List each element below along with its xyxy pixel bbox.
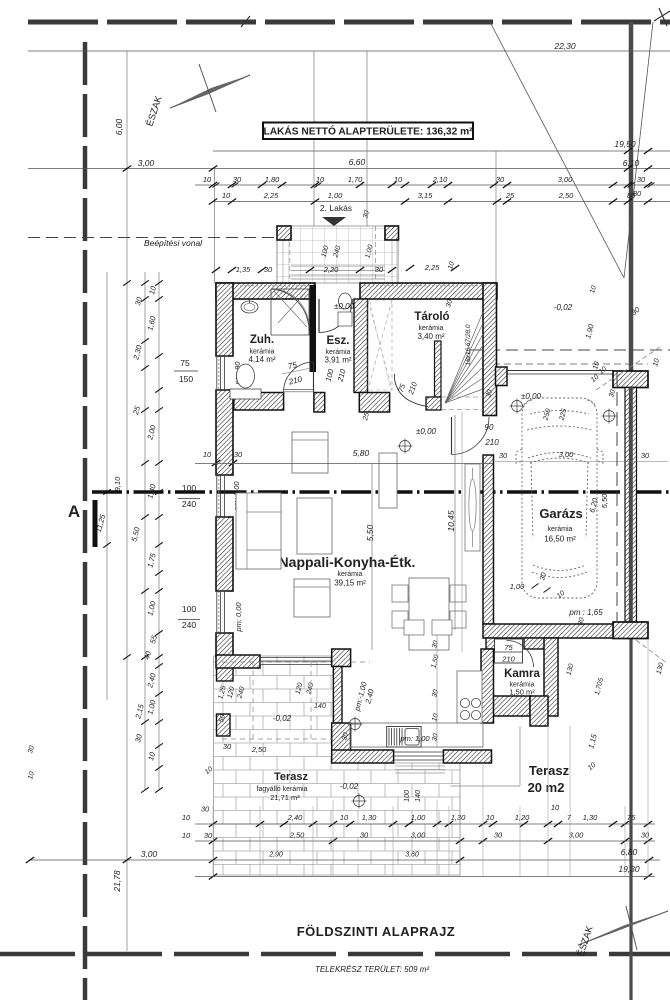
svg-text:10: 10 [222,191,231,200]
svg-text:75: 75 [504,643,513,652]
svg-text:100: 100 [182,604,196,614]
svg-text:30: 30 [223,742,232,751]
svg-text:21,71 m²: 21,71 m² [270,793,300,802]
svg-text:10: 10 [203,450,212,459]
svg-text:±0,00: ±0,00 [334,302,355,311]
svg-text:pm: 0,00: pm: 0,00 [234,602,243,633]
svg-text:210: 210 [287,374,304,386]
svg-text:30: 30 [362,210,371,219]
svg-text:240: 240 [182,620,196,630]
svg-text:75: 75 [287,360,298,371]
svg-text:30: 30 [375,265,384,274]
svg-text:2,20: 2,20 [323,265,339,274]
svg-text:30: 30 [27,745,36,754]
svg-text:1,00: 1,00 [510,582,525,591]
svg-text:±0,00: ±0,00 [416,427,437,436]
svg-text:-0,02: -0,02 [273,714,292,723]
svg-text:39,15 m²: 39,15 m² [334,579,366,588]
svg-text:1,40: 1,40 [145,482,158,499]
svg-text:10: 10 [589,285,598,294]
svg-text:30: 30 [445,299,454,308]
svg-text:6,20: 6,20 [587,496,600,513]
svg-text:Garázs: Garázs [539,506,582,521]
svg-text:10,45: 10,45 [446,510,456,532]
svg-text:80: 80 [633,189,642,198]
svg-text:3,00: 3,00 [559,450,574,459]
svg-text:240: 240 [182,499,196,509]
svg-text:90: 90 [485,423,494,432]
svg-text:1,35: 1,35 [236,265,251,274]
svg-text:5,50: 5,50 [365,524,375,541]
svg-text:3,40 m²: 3,40 m² [417,332,444,341]
svg-text:-0,02: -0,02 [554,303,573,312]
svg-text:-0,02: -0,02 [340,782,359,791]
svg-text:21,78: 21,78 [112,870,122,893]
svg-text:140: 140 [314,703,326,710]
svg-text:30: 30 [431,689,440,698]
svg-text:2,90: 2,90 [268,852,283,859]
svg-text:FÖLDSZINTI ALAPRAJZ: FÖLDSZINTI ALAPRAJZ [297,924,456,939]
svg-text:3,15: 3,15 [418,191,433,200]
svg-text:1,30: 1,30 [583,813,598,822]
svg-text:100: 100 [324,367,336,382]
svg-text:130: 130 [656,662,666,675]
svg-text:kerámia: kerámia [548,526,573,533]
svg-text:10: 10 [551,803,560,812]
svg-text:75: 75 [180,358,190,368]
svg-text:30: 30 [264,265,273,274]
svg-text:30: 30 [234,450,243,459]
svg-text:30: 30 [133,732,144,743]
svg-text:10: 10 [340,813,349,822]
svg-text:1,30: 1,30 [362,813,377,822]
svg-text:Kamra: Kamra [504,668,540,680]
svg-text:1,00: 1,00 [411,813,426,822]
svg-text:1,00: 1,00 [328,191,343,200]
svg-text:10: 10 [182,831,191,840]
svg-text:30: 30 [641,831,650,840]
svg-text:100: 100 [404,790,411,802]
svg-text:10: 10 [146,750,157,761]
svg-text:Terasz: Terasz [529,763,570,778]
svg-text:pm: 1,00: pm: 1,00 [399,734,430,743]
svg-text:1,70: 1,70 [348,175,363,184]
svg-text:3,00: 3,00 [558,175,573,184]
svg-text:Beépítési vonal: Beépítési vonal [144,238,203,248]
svg-text:6,60: 6,60 [349,157,366,167]
svg-text:25: 25 [131,404,142,416]
svg-text:10: 10 [590,374,601,384]
svg-text:1,00: 1,00 [145,698,158,715]
svg-text:4,14 m²: 4,14 m² [248,355,275,364]
svg-text:1,15: 1,15 [586,732,599,749]
svg-text:10: 10 [587,762,598,772]
svg-text:20 m2: 20 m2 [528,780,565,795]
svg-text:3,91 m²: 3,91 m² [324,356,351,365]
svg-text:Tároló: Tároló [414,311,449,323]
svg-text:6,00: 6,00 [114,118,124,135]
svg-text:1,30: 1,30 [451,813,466,822]
svg-text:10: 10 [204,766,215,776]
svg-text:30: 30 [539,572,548,581]
svg-text:30: 30 [637,175,646,184]
svg-text:1,705: 1,705 [594,677,605,696]
svg-text:30: 30 [431,733,440,742]
svg-text:210: 210 [335,367,347,383]
svg-text:250: 250 [542,408,552,422]
svg-text:1,50 m²: 1,50 m² [509,688,535,697]
svg-text:140: 140 [415,790,422,802]
svg-text:Esz.: Esz. [326,335,349,347]
svg-text:LAKÁS NETTÓ ALAPTERÜLETE: 136,: LAKÁS NETTÓ ALAPTERÜLETE: 136,32 m² [263,125,473,138]
svg-text:100: 100 [182,483,196,493]
svg-text:Zuh.: Zuh. [250,334,274,346]
svg-text:10: 10 [652,358,661,367]
svg-text:A: A [68,502,80,521]
svg-text:55: 55 [148,633,159,644]
svg-text:10: 10 [556,590,567,600]
svg-text:2,40: 2,40 [287,813,303,822]
svg-text:130: 130 [566,663,576,676]
svg-text:18x16,67/28,0: 18x16,67/28,0 [465,324,472,366]
svg-text:7: 7 [567,813,572,822]
svg-text:1,75: 1,75 [145,551,158,568]
svg-text:1,50: 1,50 [430,654,440,669]
svg-text:2,50: 2,50 [289,831,305,840]
svg-text:30: 30 [360,831,369,840]
svg-text:3,00: 3,00 [141,849,158,859]
svg-text:75: 75 [627,813,636,822]
svg-text:210: 210 [501,655,515,664]
svg-text:210: 210 [484,438,499,447]
svg-text:22,30: 22,30 [553,41,576,51]
svg-text:2,25: 2,25 [263,191,279,200]
svg-text:2. Lakás: 2. Lakás [320,203,352,213]
svg-text:1,90: 1,90 [583,322,596,339]
svg-text:10: 10 [486,813,495,822]
svg-text:9,10: 9,10 [113,476,122,491]
svg-text:30: 30 [204,831,213,840]
svg-text:10: 10 [147,284,158,295]
svg-text:kerámia: kerámia [419,325,444,332]
svg-text:10: 10 [182,813,191,822]
svg-text:150: 150 [179,374,193,384]
svg-text:2,15: 2,15 [133,702,146,720]
svg-text:2,50: 2,50 [558,191,574,200]
svg-text:1,80: 1,80 [265,175,280,184]
svg-text:TELEKRÉSZ TERÜLET: 509 m²: TELEKRÉSZ TERÜLET: 509 m² [315,965,429,974]
svg-text:fagyálló kerámia: fagyálló kerámia [257,786,308,793]
svg-text:10: 10 [27,771,36,780]
svg-text:2,50: 2,50 [251,745,267,754]
svg-text:10: 10 [431,713,440,722]
svg-text:1,00: 1,00 [145,599,158,616]
svg-text:30: 30 [499,451,508,460]
svg-text:16,50 m²: 16,50 m² [544,535,576,544]
svg-text:30: 30 [641,451,650,460]
svg-text:3,60: 3,60 [405,852,419,859]
svg-text:3,00: 3,00 [138,158,155,168]
svg-text:210: 210 [406,380,419,397]
svg-text:1,60: 1,60 [145,314,158,331]
svg-text:pm : 1,65: pm : 1,65 [568,608,603,617]
svg-text:2,00: 2,00 [145,423,158,441]
svg-text:2,25: 2,25 [424,263,440,272]
svg-text:30: 30 [201,805,210,814]
svg-text:2,40: 2,40 [145,671,158,689]
svg-text:2,30: 2,30 [131,343,144,361]
svg-text:10: 10 [203,175,212,184]
svg-text:30: 30 [494,831,503,840]
svg-text:3,00: 3,00 [569,831,584,840]
svg-text:30: 30 [608,389,617,398]
svg-text:5,80: 5,80 [353,448,370,458]
svg-text:25: 25 [362,412,371,422]
svg-text:19,30: 19,30 [618,864,640,874]
svg-text:3,00: 3,00 [411,831,426,840]
svg-text:19,50: 19,50 [614,139,636,149]
svg-text:6,80: 6,80 [621,847,638,857]
svg-text:kerámia: kerámia [338,571,363,578]
svg-text:Nappali-Konyha-Étk.: Nappali-Konyha-Étk. [279,554,416,570]
svg-text:Terasz: Terasz [274,771,309,783]
svg-text:5,50: 5,50 [129,525,142,542]
svg-text:ÉSZAK: ÉSZAK [145,94,165,128]
svg-text:5,50: 5,50 [600,493,609,508]
